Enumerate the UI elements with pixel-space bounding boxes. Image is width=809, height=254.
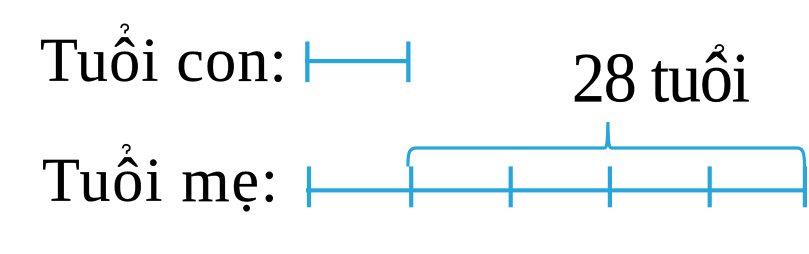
label "Tuổi mẹ:" — [42, 150, 280, 212]
hook-above mark of "28 tuổi" — [716, 45, 724, 55]
mother tick 6 — [803, 166, 807, 207]
mother tick 4 — [608, 166, 612, 207]
hook-above mark of "Tuổi mẹ" — [123, 145, 130, 154]
mother bar line — [306, 188, 806, 192]
child bar line — [305, 59, 411, 63]
hook-above mark of "Tuổi con" — [121, 24, 128, 33]
brace "28 tuổi" — [408, 122, 805, 169]
mother tick 1 — [307, 166, 311, 207]
label "28 tuổi" — [572, 44, 749, 115]
child left tick — [305, 42, 309, 83]
child right tick — [406, 42, 410, 83]
label "Tuổi con:" — [40, 30, 288, 92]
mother tick 2 — [409, 166, 413, 207]
mother tick 5 — [708, 166, 712, 207]
mother tick 3 — [509, 166, 513, 207]
